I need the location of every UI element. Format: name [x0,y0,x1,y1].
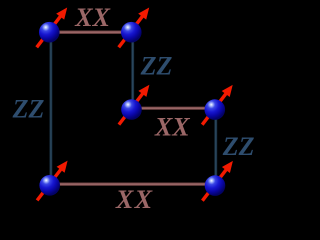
svg-text:ZZ: ZZ [222,132,255,161]
svg-text:ZZ: ZZ [140,51,173,80]
svg-text:ZZ: ZZ [12,94,45,123]
svg-text:XX: XX [154,112,190,141]
svg-text:XX: XX [74,3,110,32]
svg-text:XX: XX [115,185,154,214]
